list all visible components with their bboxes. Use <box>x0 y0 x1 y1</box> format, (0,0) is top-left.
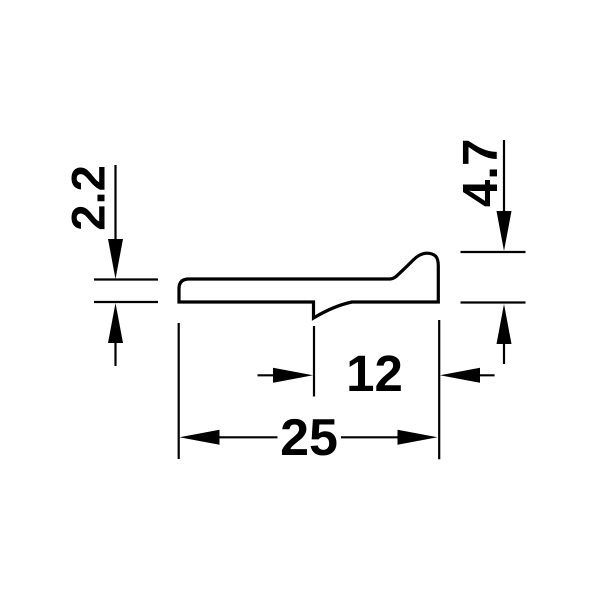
dim 25 dimension line left segment <box>217 436 278 438</box>
dim 12 right arrowhead <box>440 368 480 383</box>
svg-text:4.7: 4.7 <box>453 139 508 208</box>
svg-text:2.2: 2.2 <box>63 165 116 231</box>
dim 2.2 dimension line upper <box>114 165 116 246</box>
dim 2.2 lower arrowhead <box>108 303 123 343</box>
dim 25 left arrowhead <box>180 430 220 445</box>
extension line right (dims 12 and 25) <box>438 320 440 459</box>
dim 25 dimension line right segment <box>341 436 400 438</box>
dim 4.7 upper arrowhead <box>497 211 512 251</box>
dim 12 right leader line <box>478 374 495 376</box>
dim 12 left arrowhead <box>273 368 313 383</box>
dim 2.2 extension line top <box>94 278 158 280</box>
extension line middle (dim 12) <box>313 326 315 397</box>
dim 4.7 extension line bottom <box>461 301 526 303</box>
dim 12 left leader line <box>258 374 277 376</box>
dim 25 right arrowhead <box>398 430 438 445</box>
dim 4.7 lower arrowhead <box>497 304 512 344</box>
dim 4.7 dimension line upper <box>503 140 505 218</box>
dim 2.2 extension line bottom <box>94 301 158 303</box>
extension line left (dim 25) <box>178 323 180 459</box>
dim 4.7 dimension line lower tail <box>503 342 505 364</box>
dim 4.7 extension line top <box>461 251 526 253</box>
dim 2.2 dimension line lower tail <box>114 341 116 366</box>
dim 2.2 upper arrowhead <box>108 239 123 279</box>
profile cross-section outline <box>179 253 438 318</box>
svg-text:25: 25 <box>280 409 338 467</box>
svg-text:12: 12 <box>346 345 403 402</box>
